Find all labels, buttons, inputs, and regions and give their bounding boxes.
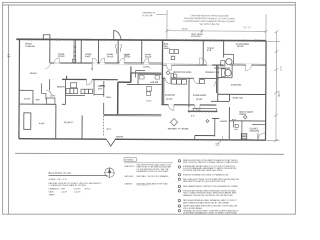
svg-text:VINYL AT WET AREAS.: VINYL AT WET AREAS. bbox=[183, 207, 203, 210]
cabinet fixtures (dark) bbox=[66, 83, 92, 94]
svg-text:11'x12': 11'x12' bbox=[145, 56, 152, 58]
svg-text:8'x10': 8'x10' bbox=[146, 101, 151, 103]
diamonds bbox=[166, 71, 170, 75]
svg-text:SCALE : 1/8" = 1'-0": SCALE : 1/8" = 1'-0" bbox=[49, 178, 68, 181]
bump top 1 bbox=[43, 35, 50, 40]
svg-text:10'x12': 10'x12' bbox=[107, 56, 114, 58]
svg-text:STA.: STA. bbox=[98, 87, 103, 90]
svg-text:ROOM: ROOM bbox=[239, 114, 246, 116]
svg-text:EXISTING MEDICAL OFFICE BUILDI: EXISTING MEDICAL OFFICE BUILDING bbox=[190, 14, 228, 17]
svg-text:DATE:: DATE: bbox=[49, 191, 55, 194]
top row partitions bbox=[49, 39, 51, 62]
svg-text:4'x6': 4'x6' bbox=[35, 98, 40, 101]
svg-text:12'-6": 12'-6" bbox=[281, 65, 283, 70]
numbered notes bbox=[178, 159, 240, 215]
svg-text:NEW CABINETS AND COUNTER TOPS: NEW CABINETS AND COUNTER TOPS FURNISHED … bbox=[183, 185, 239, 188]
vestibule entry bbox=[214, 118, 216, 136]
svg-text:8'x10': 8'x10' bbox=[232, 119, 237, 121]
svg-text:STOR. RM: STOR. RM bbox=[232, 98, 242, 100]
exam rooms row (middle right) bbox=[138, 73, 161, 75]
svg-text:6'x9': 6'x9' bbox=[207, 50, 212, 52]
stairs dark block bbox=[241, 133, 247, 139]
svg-text:12'x10': 12'x10' bbox=[196, 99, 203, 101]
svg-text:AREA: AREA bbox=[164, 47, 170, 50]
svg-text:CLOS.: CLOS. bbox=[24, 98, 31, 100]
svg-text:ENTRY: ENTRY bbox=[220, 121, 228, 123]
svg-text:LOCATION: LOCATION bbox=[191, 35, 201, 38]
svg-text:NUMBERED NOTES ON THIS SHEET: NUMBERED NOTES ON THIS SHEET bbox=[137, 171, 170, 173]
window ticks on top wall bbox=[28, 38, 258, 42]
svg-text:MATCH SAMPLE BOARD SELECTED BY: MATCH SAMPLE BOARD SELECTED BY THE OWNER… bbox=[183, 201, 230, 204]
svg-text:HALL: HALL bbox=[106, 96, 112, 99]
right vertical dimension bbox=[275, 31, 278, 140]
svg-text:EXISTING PLUMBING FIXTURES TO: EXISTING PLUMBING FIXTURES TO REMAIN IN … bbox=[183, 174, 229, 177]
svg-text:EXAM ROOM: EXAM ROOM bbox=[193, 94, 206, 97]
svg-text:LEGEND: LEGEND bbox=[125, 160, 134, 162]
svg-text:SEE NOTES BELOW: SEE NOTES BELOW bbox=[199, 24, 219, 26]
svg-text:STOR RM: STOR RM bbox=[25, 46, 35, 48]
separator line bbox=[15, 153, 284, 154]
corridor walls bbox=[50, 61, 163, 64]
svg-text:EXAM RM: EXAM RM bbox=[165, 94, 175, 97]
svg-text:1-20-99: 1-20-99 bbox=[74, 192, 82, 194]
bump top 2 bbox=[114, 30, 122, 40]
svg-text:EXAM RM.: EXAM RM. bbox=[231, 84, 242, 87]
svg-text:DASHED: DASHED bbox=[125, 182, 133, 185]
dashed line near entry bbox=[103, 116, 105, 136]
svg-text:28'x14': 28'x14' bbox=[30, 72, 37, 75]
envelope bbox=[16, 39, 266, 40]
svg-text:1-4-99: 1-4-99 bbox=[61, 192, 68, 194]
room labels (tiny text) bbox=[7, 32, 260, 140]
legend bbox=[124, 158, 173, 186]
svg-text:10'x12': 10'x12' bbox=[58, 56, 65, 58]
wall between waiting and left room bbox=[81, 115, 83, 139]
entry V door bottom bbox=[106, 139, 115, 146]
svg-text:SHEET: SHEET bbox=[49, 194, 56, 196]
svg-text:CONSULT RM: CONSULT RM bbox=[205, 72, 219, 74]
svg-text:CODES AND ORDINANCES, CONTR. T: CODES AND ORDINANCES, CONTR. TO VERIFY C… bbox=[183, 212, 237, 215]
svg-text:REV 2: REV 2 bbox=[85, 188, 92, 190]
svg-text:56'-0": 56'-0" bbox=[278, 91, 281, 97]
svg-text:22'x20'-6": 22'x20'-6" bbox=[64, 122, 74, 124]
svg-text:DAMAGED TILES NOTED ON REFLECT: DAMAGED TILES NOTED ON REFLECTED CEILING… bbox=[183, 194, 233, 197]
svg-text:LOCATED AT 1250 W. MAIN ST. SU: LOCATED AT 1250 W. MAIN ST. SUITE B bbox=[49, 184, 87, 187]
svg-text:1-18-99: 1-18-99 bbox=[74, 188, 82, 190]
svg-text:21'-0": 21'-0" bbox=[243, 27, 251, 29]
north arrow bbox=[104, 167, 115, 178]
svg-text:4'x16': 4'x16' bbox=[39, 122, 45, 125]
small box near hall bbox=[136, 71, 146, 78]
exam room counters (dark) bbox=[170, 49, 205, 84]
svg-text:BLDG LINE: BLDG LINE bbox=[142, 15, 153, 17]
svg-text:RECEPTION AREA: RECEPTION AREA bbox=[173, 71, 192, 74]
svg-text:BRACKETS: BRACKETS bbox=[125, 165, 136, 168]
title block bbox=[49, 167, 115, 196]
svg-text:SHELVES: SHELVES bbox=[250, 131, 260, 133]
svg-text:DRAWN BY:: DRAWN BY: bbox=[49, 187, 61, 190]
svg-text:34'-0": 34'-0" bbox=[182, 29, 188, 31]
hatched wall right of waiting bbox=[188, 110, 217, 112]
svg-text:ENTRY: ENTRY bbox=[116, 136, 124, 138]
svg-text:14'x13': 14'x13' bbox=[237, 45, 244, 48]
low counter line above hatch bbox=[193, 108, 216, 111]
central hall thick walls bbox=[131, 72, 161, 74]
svg-text:4'-1": 4'-1" bbox=[191, 114, 196, 117]
svg-text:DRAWING OF: DRAWING OF bbox=[142, 11, 156, 14]
svg-text:WAITING: WAITING bbox=[168, 127, 177, 130]
svg-text:NEW WALL - WOOD STUD FRAMING: NEW WALL - WOOD STUD FRAMING bbox=[137, 175, 169, 178]
right column rooms bbox=[226, 59, 232, 65]
lower-left room walls bbox=[62, 78, 86, 80]
zigzag near stairs bbox=[41, 83, 46, 99]
svg-text:INTERIOR PARTITION CHANGES FOR: INTERIOR PARTITION CHANGES FOR NEW TENAN… bbox=[184, 20, 236, 23]
svg-text:BUILDING PLAN: BUILDING PLAN bbox=[49, 172, 71, 175]
waiting room top wall bbox=[104, 113, 162, 115]
corridor door gaps (white) + arcs bbox=[54, 63, 252, 65]
svg-text:SIDE OF RM 103, PATCH FLOOR AN: SIDE OF RM 103, PATCH FLOOR AND CEILING … bbox=[183, 161, 239, 164]
svg-text:9'x12': 9'x12' bbox=[85, 56, 91, 58]
svg-text:LAB RM: LAB RM bbox=[150, 81, 158, 84]
svg-text:STERIL.: STERIL. bbox=[143, 67, 151, 69]
svg-text:ROOM: ROOM bbox=[182, 128, 189, 130]
svg-text:DOORS IN THE BUILDING, VERIFY: DOORS IN THE BUILDING, VERIFY ALL SIZES. bbox=[183, 169, 223, 172]
svg-text:JRH: JRH bbox=[61, 188, 65, 190]
svg-text:HATCHED: HATCHED bbox=[125, 175, 134, 178]
svg-text:9'x7': 9'x7' bbox=[107, 129, 112, 131]
left mid rooms bbox=[19, 89, 33, 91]
svg-text:NEW PARTITION LAYOUT, ALL WORK: NEW PARTITION LAYOUT, ALL WORK PER CODE. bbox=[183, 180, 226, 183]
svg-text:12'x10': 12'x10' bbox=[166, 99, 173, 101]
tall closet rect bottom-left bbox=[24, 113, 31, 130]
svg-text:RECEPT: RECEPT bbox=[57, 87, 66, 89]
small wc fixtures mid bbox=[173, 74, 177, 78]
entry door arc swings outside bbox=[215, 136, 223, 144]
svg-text:SHOWING PROPOSED REMODEL OF SU: SHOWING PROPOSED REMODEL OF SUITE B AND bbox=[184, 17, 235, 20]
svg-text:W.C.: W.C. bbox=[125, 55, 129, 57]
